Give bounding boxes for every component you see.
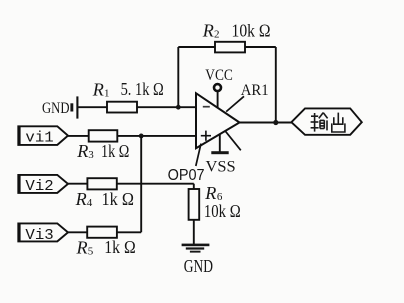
wire op-amp output [240,122,292,124]
wire VCC stub [217,92,219,108]
svg-text:vi1: vi1 [25,129,53,146]
wire GND to R1 [78,106,107,108]
svg-text:GND: GND [42,100,70,117]
pin stub diagonal lower right [226,131,241,150]
svg-text:R: R [92,79,104,99]
svg-text:Vi3: Vi3 [25,227,53,244]
label R5 1k ohm [75,237,135,257]
label R6 10k ohm [204,183,241,221]
resistor R4 [87,178,116,189]
resistor R6 (vertical) [189,189,200,220]
svg-text:1k Ω: 1k Ω [104,237,135,257]
input tag Vi2 [18,175,68,193]
leader line OP07 [196,144,201,166]
svg-text:5. 1k Ω: 5. 1k Ω [121,79,164,99]
node junction on non-inverting line [139,134,144,139]
svg-text:AR1: AR1 [241,82,269,99]
svg-text:Vi2: Vi2 [25,178,53,195]
resistor R2 [215,42,245,53]
wire bus vertical [140,136,142,232]
svg-text:4: 4 [87,197,93,209]
minus sign [203,106,210,108]
char shu (right part) [319,113,323,119]
input tag Vi3 [18,223,68,241]
svg-text:5: 5 [88,246,94,258]
wire Vi3 to R5 [68,231,87,233]
wire R4 across bus to R6 branch [117,183,194,185]
svg-text:R: R [75,189,87,209]
resistor R5 [87,227,117,238]
wire R6 to ground [193,220,195,244]
resistor R3 [89,130,118,141]
wire feedback loop top right [245,46,276,48]
label R3 1k ohm [76,141,129,161]
svg-text:1k Ω: 1k Ω [102,189,134,209]
node junction on output [273,120,278,125]
input tag Vi1 [18,126,68,145]
wire Vi1 to R3 [68,135,89,137]
wire feedback loop right vertical [275,47,277,123]
resistor R1 [107,102,137,113]
node junction on inverting input [176,105,181,110]
svg-text:VSS: VSS [206,159,236,176]
wire down to R6 [193,184,195,190]
label R2 10k ohm [202,21,271,41]
wire feedback loop top left [178,46,215,48]
svg-text:R: R [75,237,87,257]
svg-text:R: R [202,21,214,41]
wire R1 to op-amp inverting input [137,106,196,108]
svg-text:R: R [204,183,216,203]
label chinese output text in hexagon [311,113,345,132]
svg-text:2: 2 [214,29,220,41]
wire R5 to bus [117,231,141,233]
VCC terminal circle [214,84,221,91]
svg-text:R: R [76,141,88,161]
GND input port symbol [70,96,77,118]
wire VSS stub [219,134,221,151]
svg-text:1k Ω: 1k Ω [101,141,129,161]
op-amp AR1 triangle [196,93,240,148]
wire R3 to op-amp non-inverting input [117,135,196,137]
label R1 5.1k ohm [92,79,164,99]
svg-text:GND: GND [184,256,213,276]
svg-text:10k Ω: 10k Ω [204,201,241,221]
output hexagon tag [291,108,361,134]
svg-text:3: 3 [88,149,94,161]
char chu [337,113,339,125]
wire Vi2 to R4 [68,183,87,185]
char shu (left radical) [311,115,318,117]
svg-text:1: 1 [104,88,110,100]
label R4 1k ohm [75,189,134,209]
ground symbol [182,244,210,253]
svg-text:VCC: VCC [205,65,233,84]
leader line AR1 [226,96,244,111]
wire feedback loop left vertical [177,47,179,107]
plus sign [201,131,211,141]
svg-text:10k Ω: 10k Ω [232,21,271,41]
VSS bar symbol [211,151,228,154]
svg-text:OP07: OP07 [168,167,205,184]
